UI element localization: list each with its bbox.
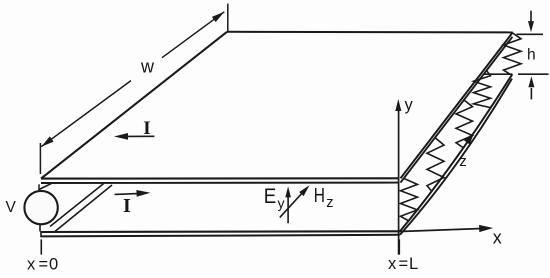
svg-text:I: I <box>123 195 131 217</box>
svg-text:E: E <box>264 184 277 208</box>
svg-text:=: = <box>39 256 49 273</box>
top plate front edge (lower line) <box>41 182 399 184</box>
svg-text:V: V <box>6 199 17 216</box>
svg-text:z: z <box>326 195 333 211</box>
x=0 extension line <box>40 239 42 254</box>
resistor zigzag 5 (back corner) <box>504 33 522 74</box>
svg-text:y: y <box>278 195 285 211</box>
x = L extension line <box>398 239 400 254</box>
w extension tick at apex <box>227 4 229 32</box>
wire from source top to top plate <box>39 183 52 189</box>
resistor zigzag 4 <box>474 71 491 108</box>
lower current arrow (between plates, pointing right) <box>115 193 141 194</box>
svg-text:x: x <box>27 256 36 273</box>
svg-text:z: z <box>459 153 467 170</box>
svg-text:H: H <box>314 185 325 207</box>
svg-text:h: h <box>527 47 536 64</box>
x axis <box>400 229 482 232</box>
bottom plate right edge (inner line, slight sag) <box>400 79 512 235</box>
z axis arrowhead on bottom-plate edge <box>464 132 475 145</box>
bottom plate left end cap <box>40 231 42 237</box>
h lower reference line <box>518 73 549 75</box>
h upper reference line <box>517 33 544 35</box>
resistor zigzag 3 <box>456 100 473 148</box>
top plate back edge <box>227 31 513 34</box>
E_y arrow (vertical up) <box>287 196 289 223</box>
top plate front edge (upper line) <box>41 177 399 179</box>
w dimension arrowhead upper <box>212 12 224 22</box>
resistor zigzag (front, at x=L) <box>401 179 418 221</box>
bottom plate left-edge diagonals seen in gap <box>50 183 104 226</box>
H_z arrow (diagonal, along z) <box>280 193 302 217</box>
svg-text:L: L <box>409 255 418 273</box>
voltage source circle V <box>24 191 57 224</box>
top plate right edge (outer line) <box>401 32 513 178</box>
w extension tick (lower) <box>39 143 41 174</box>
y axis <box>398 104 400 255</box>
svg-text:0: 0 <box>49 256 58 273</box>
top plate right edge (inner line) <box>401 37 513 183</box>
upper current arrow (on top plate, pointing left) <box>124 135 154 137</box>
bottom plate front edge (lower line) <box>41 235 400 237</box>
resistor zigzag 2 <box>427 138 444 191</box>
h lower arrow (up) <box>530 88 532 99</box>
h upper arrow (down) <box>530 11 532 22</box>
bottom plate front edge (upper line) <box>41 230 400 233</box>
short tick below top plate at x=0 <box>38 184 40 190</box>
w dimension arrowhead lower <box>41 136 53 146</box>
svg-text:y: y <box>405 96 414 114</box>
svg-text:I: I <box>143 118 150 139</box>
svg-text:x: x <box>388 255 397 273</box>
bottom plate back edge visible part <box>483 73 512 75</box>
svg-text:w: w <box>140 57 155 77</box>
top plate left edge <box>41 32 227 179</box>
bottom plate right edge (outer line, slight sag) <box>400 74 512 231</box>
wire from circle bottom to bottom plate <box>39 225 41 232</box>
w dimension line (upper segment) <box>162 12 224 58</box>
svg-text:=: = <box>399 255 409 273</box>
w dimension line (lower segment) <box>41 81 131 147</box>
svg-text:x: x <box>493 228 502 248</box>
